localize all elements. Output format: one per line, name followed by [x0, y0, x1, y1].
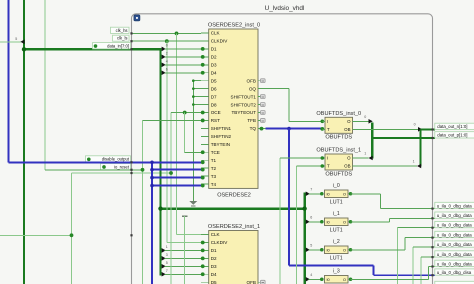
svg-text:disable_output: disable_output — [102, 157, 130, 162]
svg-text:0: 0 — [364, 115, 366, 119]
svg-text:OB: OB — [344, 164, 350, 169]
svg-text:TBYTEOUT: TBYTEOUT — [231, 110, 256, 115]
svg-text:TBYTEIN: TBYTEIN — [211, 142, 230, 147]
svg-text:OSERDESE2: OSERDESE2 — [217, 192, 251, 198]
svg-text:5: 5 — [310, 243, 312, 247]
svg-text:1: 1 — [364, 151, 366, 155]
svg-text:i_2: i_2 — [333, 239, 340, 245]
svg-text:O: O — [347, 119, 351, 124]
svg-text:OB: OB — [344, 127, 350, 132]
svg-text:5: 5 — [15, 37, 17, 41]
svg-text:D5: D5 — [211, 78, 217, 83]
svg-text:OCE: OCE — [211, 110, 221, 115]
svg-text:CLKDIV: CLKDIV — [211, 39, 229, 44]
svg-text:SHIFTIN2: SHIFTIN2 — [211, 134, 232, 139]
svg-text:OSERDESE2_inst_0: OSERDESE2_inst_0 — [208, 23, 260, 29]
svg-text:I0: I0 — [327, 278, 330, 282]
svg-text:7: 7 — [310, 187, 312, 191]
svg-text:clk_ls: clk_ls — [117, 36, 127, 41]
svg-text:LUT1: LUT1 — [330, 256, 343, 262]
svg-text:OBUFTDS_inst_1: OBUFTDS_inst_1 — [316, 148, 361, 154]
svg-text:u_ila_0_dbg_data: u_ila_0_dbg_data — [437, 242, 472, 247]
svg-text:U_lvdsio_vhdl: U_lvdsio_vhdl — [265, 5, 305, 12]
svg-text:SHIFTOUT2: SHIFTOUT2 — [231, 102, 257, 107]
svg-text:data_out_p[1:0]: data_out_p[1:0] — [437, 133, 467, 138]
svg-text:T: T — [327, 164, 330, 169]
svg-text:TQ: TQ — [250, 126, 257, 131]
svg-text:4: 4 — [166, 60, 168, 64]
svg-text:I0: I0 — [327, 248, 330, 252]
svg-text:SHIFTIN1: SHIFTIN1 — [211, 126, 232, 131]
svg-text:i_3: i_3 — [333, 268, 340, 274]
svg-text:D8: D8 — [211, 102, 217, 107]
svg-text:LUT1: LUT1 — [330, 200, 343, 206]
svg-text:T3: T3 — [211, 174, 217, 179]
svg-text:u_ila_0_dbg_data: u_ila_0_dbg_data — [437, 252, 472, 257]
svg-text:OFB: OFB — [247, 78, 256, 83]
svg-text:u_ila_0_dbg_data: u_ila_0_dbg_data — [437, 223, 472, 228]
svg-text:2: 2 — [166, 52, 168, 56]
svg-text:io_reset: io_reset — [114, 164, 130, 169]
svg-text:LUT1: LUT1 — [330, 228, 343, 234]
svg-text:5: 5 — [166, 261, 168, 265]
svg-text:6: 6 — [166, 68, 168, 72]
svg-text:OQ: OQ — [249, 86, 257, 91]
svg-text:u_ila_0_dbg_data: u_ila_0_dbg_data — [437, 232, 472, 237]
svg-text:OFB: OFB — [247, 280, 256, 284]
svg-text:D6: D6 — [211, 86, 217, 91]
svg-text:I: I — [327, 156, 328, 161]
svg-text:OSERDESE2_inst_1: OSERDESE2_inst_1 — [208, 224, 260, 230]
svg-text:I0: I0 — [327, 192, 330, 196]
svg-text:OBUFTDS_inst_0: OBUFTDS_inst_0 — [316, 111, 361, 117]
svg-text:O: O — [343, 278, 346, 282]
svg-text:D4: D4 — [211, 272, 217, 277]
svg-text:SHIFTOUT1: SHIFTOUT1 — [231, 94, 257, 99]
svg-text:TFB: TFB — [247, 118, 256, 123]
svg-text:u_ila_0_dbg_disa: u_ila_0_dbg_disa — [437, 270, 472, 275]
svg-text:I: I — [327, 119, 328, 124]
svg-text:RST: RST — [211, 118, 220, 123]
svg-text:data_in[7:0]: data_in[7:0] — [107, 43, 129, 48]
svg-text:O: O — [343, 220, 346, 224]
svg-text:i_0: i_0 — [333, 183, 340, 189]
svg-text:u_ila_0_dbg_data: u_ila_0_dbg_data — [437, 261, 472, 266]
svg-text:T: T — [327, 127, 330, 132]
svg-text:D1: D1 — [211, 248, 217, 253]
svg-text:OBUFTDS: OBUFTDS — [325, 135, 352, 141]
svg-text:D4: D4 — [211, 70, 217, 75]
svg-text:T1: T1 — [211, 158, 217, 163]
svg-text:D5: D5 — [211, 280, 217, 284]
svg-text:7: 7 — [166, 269, 168, 273]
svg-text:clk_hs: clk_hs — [116, 28, 128, 33]
svg-text:T2: T2 — [211, 166, 217, 171]
svg-text:CLK: CLK — [211, 232, 221, 237]
svg-text:O: O — [343, 248, 346, 252]
svg-text:CLKDIV: CLKDIV — [211, 240, 229, 245]
svg-text:TCE: TCE — [211, 150, 220, 155]
svg-text:1: 1 — [166, 245, 168, 249]
svg-text:i_1: i_1 — [333, 211, 340, 217]
svg-text:4: 4 — [310, 273, 312, 277]
svg-text:D3: D3 — [211, 63, 217, 68]
svg-text:1: 1 — [413, 159, 415, 163]
svg-text:D2: D2 — [211, 55, 217, 60]
svg-text:data_out_n[1:0]: data_out_n[1:0] — [437, 124, 467, 129]
svg-text:I0: I0 — [327, 220, 330, 224]
svg-text:O: O — [347, 156, 351, 161]
svg-text:0: 0 — [166, 44, 168, 48]
svg-text:T4: T4 — [211, 182, 217, 187]
svg-text:3: 3 — [166, 253, 168, 257]
svg-text:OBUFTDS: OBUFTDS — [325, 171, 352, 177]
svg-text:CLK: CLK — [211, 31, 221, 36]
svg-text:0: 0 — [414, 123, 416, 127]
svg-text:D3: D3 — [211, 264, 217, 269]
svg-text:O: O — [343, 192, 346, 196]
svg-text:D7: D7 — [211, 94, 217, 99]
svg-text:u_ila_0_dbg_data: u_ila_0_dbg_data — [437, 203, 472, 208]
svg-text:D1: D1 — [211, 47, 217, 52]
svg-text:u_ila_0_dbg_data: u_ila_0_dbg_data — [437, 213, 472, 218]
svg-text:D2: D2 — [211, 256, 217, 261]
svg-text:6: 6 — [310, 215, 312, 219]
